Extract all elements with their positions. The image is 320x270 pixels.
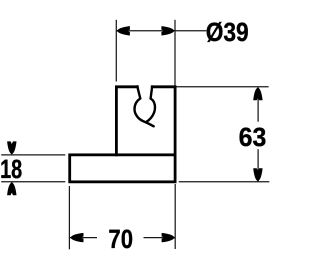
svg-text:70: 70 [108,224,133,254]
svg-text:Ø39: Ø39 [206,17,249,47]
svg-text:18: 18 [0,154,22,184]
svg-text:63: 63 [239,122,267,152]
